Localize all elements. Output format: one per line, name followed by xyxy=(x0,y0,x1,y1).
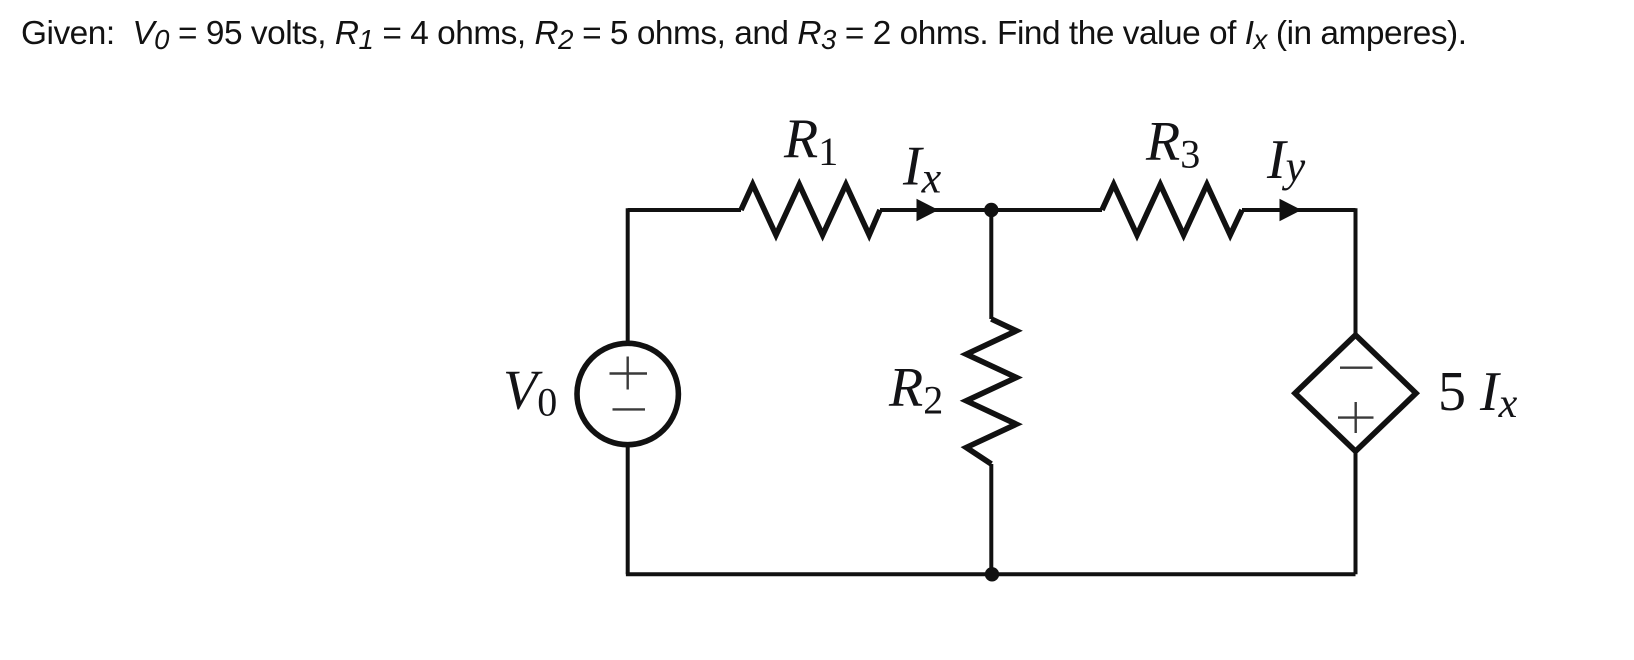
wire: left vertical from V0 bottom down to bottom wire xyxy=(626,447,630,574)
resistor R3 (zigzag) xyxy=(1102,185,1242,236)
svg-text:V0: V0 xyxy=(503,360,557,425)
wire: top horizontal from R1 to node A xyxy=(880,208,991,212)
resistor R2 (vertical zigzag) xyxy=(966,319,1016,464)
V0 minus sign xyxy=(613,408,646,410)
problem statement text xyxy=(21,15,1467,53)
svg-text:5 Ix: 5 Ix xyxy=(1438,361,1518,427)
dependent source minus sign xyxy=(1340,367,1373,369)
wire: middle vertical from node A down to R2 xyxy=(989,210,993,319)
current arrow Ix xyxy=(917,199,939,222)
current arrow Iy xyxy=(1280,199,1302,222)
svg-text:R3: R3 xyxy=(1145,111,1200,177)
node A junction dot xyxy=(984,203,998,217)
dependent source 5Ix (diamond) xyxy=(1295,335,1416,451)
svg-text:Ix: Ix xyxy=(902,135,942,202)
voltage source V0 (circle) xyxy=(577,343,678,444)
svg-text:Iy: Iy xyxy=(1266,129,1306,191)
wire: top horizontal from node A to R3 xyxy=(991,208,1102,212)
svg-text:R1: R1 xyxy=(783,108,838,174)
V0 plus sign xyxy=(610,357,648,390)
wire: right vertical from dependent source bottom to bottom wire xyxy=(1354,451,1358,574)
wire: top horizontal from R3 to right corner xyxy=(1242,208,1356,212)
resistor R1 (zigzag) xyxy=(741,185,880,236)
wire: left vertical from top wire down to V0 top xyxy=(626,208,630,341)
wire: middle vertical from R2 down to bottom node xyxy=(989,464,993,574)
svg-text:R2: R2 xyxy=(888,357,943,423)
bottom junction dot xyxy=(985,567,999,581)
wire: bottom horizontal rail xyxy=(626,572,1356,576)
dependent source plus sign xyxy=(1338,402,1374,433)
wire: right vertical from top wire down to dependent source top xyxy=(1354,208,1358,335)
wire: top horizontal from left corner to R1 xyxy=(628,208,741,212)
